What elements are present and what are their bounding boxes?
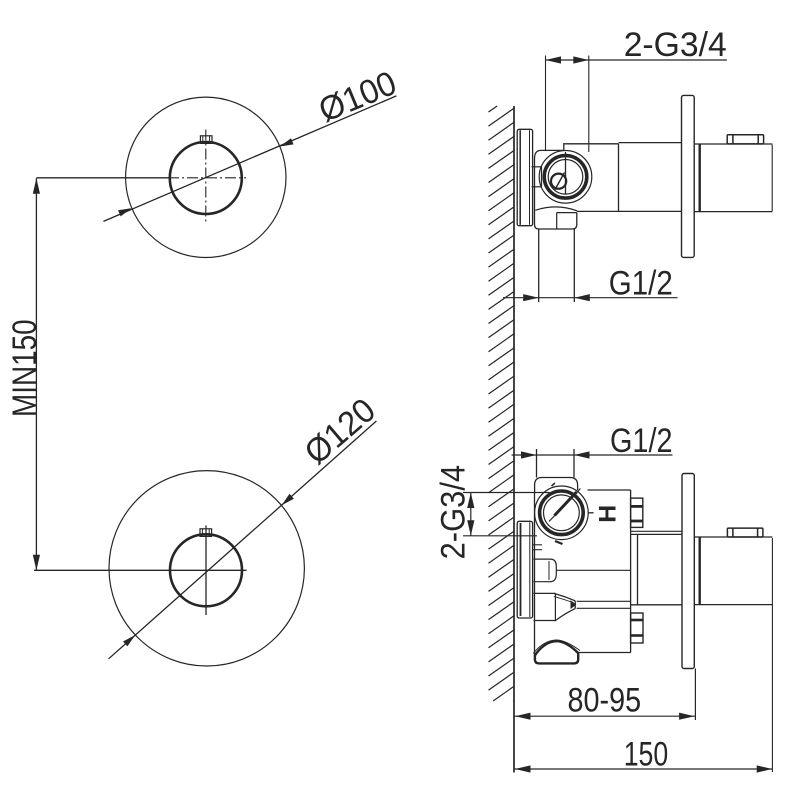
svg-text:2-G3/4: 2-G3/4 (435, 465, 473, 560)
svg-text:80-95: 80-95 (568, 682, 642, 720)
svg-text:G1/2: G1/2 (609, 265, 673, 303)
svg-text:150: 150 (624, 736, 669, 774)
svg-text:H: H (595, 505, 622, 523)
svg-text:2-G3/4: 2-G3/4 (624, 26, 727, 64)
svg-text:MIN150: MIN150 (6, 319, 44, 417)
svg-text:G1/2: G1/2 (610, 422, 673, 460)
